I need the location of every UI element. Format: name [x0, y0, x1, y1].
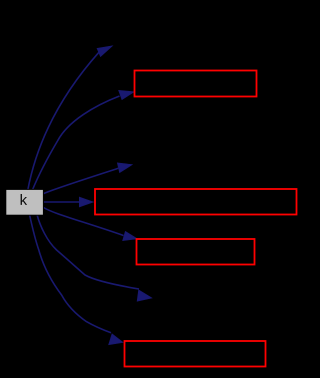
wire edge k->box4: [30, 215, 124, 345]
wire edge k->n6 (arrow only visible): [37, 215, 152, 302]
node k: [6, 189, 44, 215]
node box3 (red): [137, 239, 255, 265]
node box2 (red): [95, 189, 297, 215]
wire edge k->n1 (top, arrow only visible): [28, 46, 113, 191]
node box1 (red): [135, 71, 257, 97]
wire edge k->box1: [32, 90, 134, 190]
wire edge k->n3 (middle-upper, arrow only visible): [44, 163, 133, 194]
wire edge k->box3: [44, 208, 138, 241]
node box4 (red): [125, 341, 266, 367]
wire edge k->box2 (straight): [44, 197, 94, 207]
